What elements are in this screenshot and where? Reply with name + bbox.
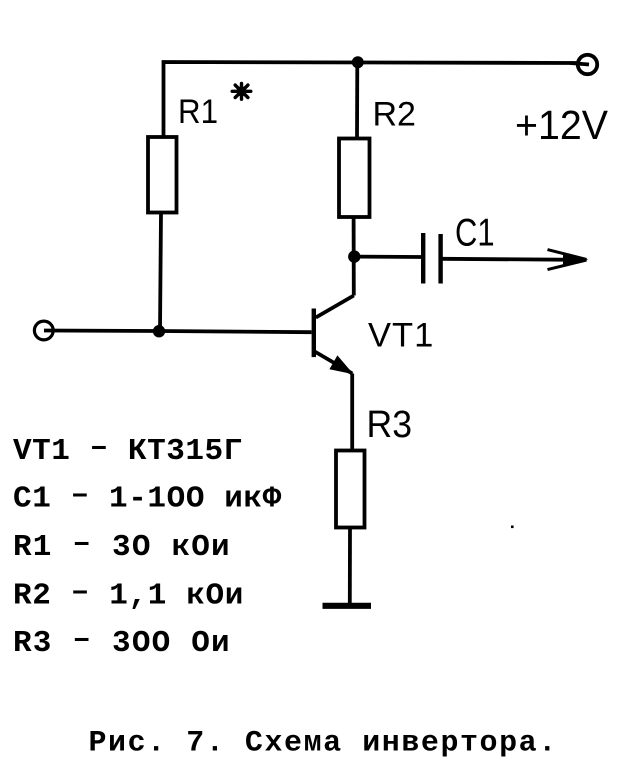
- svg-text:R1 – 3О кОи: R1 – 3О кОи: [13, 527, 231, 566]
- svg-text:VT1 – КТ315Г: VT1 – КТ315Г: [13, 431, 243, 470]
- svg-text:VT1: VT1: [368, 317, 434, 355]
- svg-text:R3: R3: [367, 404, 413, 446]
- svg-text:R2 – 1,1 кОи: R2 – 1,1 кОи: [13, 575, 244, 614]
- svg-text:R3 – 3ОО Ои: R3 – 3ОО Ои: [13, 623, 231, 662]
- svg-text:C1 – 1-1ОО икФ: C1 – 1-1ОО икФ: [13, 478, 282, 517]
- svg-text:R1: R1: [178, 93, 218, 131]
- svg-text:C1: C1: [455, 212, 495, 255]
- svg-text:R2: R2: [373, 96, 416, 134]
- svg-text:+12V: +12V: [515, 102, 609, 148]
- svg-text:Рис. 7. Схема инвертора.: Рис. 7. Схема инвертора.: [89, 727, 558, 761]
